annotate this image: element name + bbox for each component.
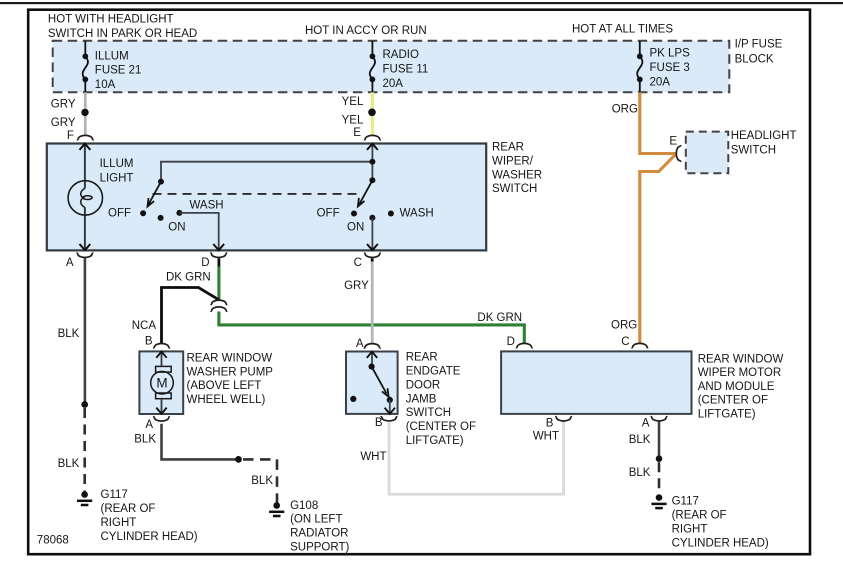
wire BLK dashed to G117 right [658,462,661,494]
svg-text:REAR: REAR [492,142,524,154]
svg-text:SWITCH IN PARK OR HEAD: SWITCH IN PARK OR HEAD [48,28,197,40]
svg-text:ORG: ORG [612,104,638,116]
rear window wiper motor box [501,351,691,414]
pump internal wire bottom [161,399,163,414]
wire BLK dashed to G117 [83,408,86,492]
svg-text:WASH: WASH [190,200,224,212]
svg-text:JAMB: JAMB [406,393,437,405]
headlight switch box [686,132,729,174]
splice dot [656,455,663,462]
svg-text:BLK: BLK [629,434,651,446]
jamb internal feed [371,352,373,367]
right blade arrowhead [358,198,365,207]
svg-text:REAR: REAR [406,351,438,363]
svg-text:CYLINDER HEAD): CYLINDER HEAD) [672,538,769,550]
svg-text:GRY: GRY [51,117,76,129]
svg-text:WIPER MOTOR: WIPER MOTOR [698,367,781,379]
svg-text:M: M [156,376,167,391]
fuse F1 ILLUM FUSE 21 10A [83,41,88,92]
svg-text:C: C [621,336,629,348]
svg-text:HOT WITH HEADLIGHT: HOT WITH HEADLIGHT [48,14,174,26]
left ON contact [158,215,164,221]
connector cap E [364,135,381,139]
right switch pivot dot [369,177,375,183]
svg-text:ON: ON [347,221,364,233]
svg-text:(REAR OF: (REAR OF [672,510,727,522]
svg-text:SWITCH: SWITCH [731,145,776,157]
svg-text:LIGHT: LIGHT [100,172,134,184]
svg-text:WHT: WHT [360,451,386,463]
svg-text:F: F [67,130,74,142]
svg-text:78068: 78068 [37,535,69,547]
svg-text:BLOCK: BLOCK [735,53,774,65]
svg-text:BLK: BLK [134,433,156,445]
svg-text:DK GRN: DK GRN [477,312,522,324]
svg-text:PK LPS: PK LPS [650,48,691,60]
right OFF contact [351,211,357,217]
svg-text:SWITCH: SWITCH [406,407,451,419]
motor M symbol [156,366,172,372]
svg-text:E: E [353,127,361,139]
svg-text:ILLUM: ILLUM [95,50,129,62]
svg-text:YEL: YEL [342,96,364,108]
arrow down at A [80,244,91,250]
arrow up at E [367,144,378,150]
svg-text:RADIO: RADIO [383,49,419,61]
svg-text:HOT AT ALL TIMES: HOT AT ALL TIMES [572,23,673,35]
jamb wire to B [389,400,391,414]
svg-text:(ABOVE LEFT: (ABOVE LEFT [187,380,262,392]
pump internal wire top [161,351,163,366]
arrow up pump [156,352,166,358]
wire BLK motor A down [658,422,661,459]
connector cup C [364,253,381,257]
jamb pivot dot [369,364,375,370]
rear window washer pump box [139,351,183,414]
svg-text:SWITCH: SWITCH [492,183,537,195]
svg-text:WASH: WASH [400,208,434,220]
svg-text:ENDGATE: ENDGATE [406,365,461,377]
svg-text:A: A [642,417,650,429]
svg-text:SUPPORT): SUPPORT) [290,542,349,554]
illum light lamp leg wire [84,144,86,251]
wire BLK dashed to G108 [243,459,277,502]
left WASH contact [176,210,182,216]
svg-text:WIPER/: WIPER/ [492,156,534,168]
svg-text:E: E [669,135,677,147]
connector cap motor C [631,343,648,347]
wire BLK pump A to splice [162,424,239,460]
svg-text:WASHER PUMP: WASHER PUMP [187,366,274,378]
right switch feed wire [371,144,373,181]
arrow down at C [367,244,378,250]
splice dot on YEL wire [368,109,376,117]
left switch blade [149,182,162,205]
connector cup jamb B [381,417,398,421]
jamb lower contact [387,397,393,403]
connector cup motor B [555,417,572,421]
connector cup motor A [651,417,668,421]
connector cup pump A [153,417,170,421]
svg-text:HEADLIGHT: HEADLIGHT [731,130,797,142]
svg-text:HOT IN ACCY OR RUN: HOT IN ACCY OR RUN [305,25,427,37]
svg-text:WHT: WHT [533,431,559,443]
left blade arrowhead [148,198,155,207]
svg-text:DK GRN: DK GRN [166,272,211,284]
svg-text:G117: G117 [101,489,128,501]
arrow up jamb [367,352,377,358]
svg-text:YEL: YEL [342,114,364,126]
fuse F3 PK LPS FUSE 3 20A [637,41,642,92]
svg-text:C: C [354,257,362,269]
svg-text:A: A [66,257,74,269]
svg-text:FUSE 3: FUSE 3 [650,62,690,74]
wire NCA black branch [162,288,219,345]
svg-text:RIGHT: RIGHT [672,524,708,536]
arrow down at D [213,244,224,250]
svg-text:LIFTGATE): LIFTGATE) [698,408,756,420]
svg-text:AND MODULE: AND MODULE [698,381,775,393]
svg-text:REAR WINDOW: REAR WINDOW [698,353,784,365]
svg-text:(ON LEFT: (ON LEFT [290,514,342,526]
connector cup A [77,253,94,257]
svg-text:OFF: OFF [108,208,131,220]
lamp filament [81,188,85,207]
left switch feed wire [161,162,372,182]
svg-text:ILLUM: ILLUM [100,158,134,170]
svg-text:B: B [546,417,554,429]
lamp ILLUM LIGHT [68,181,102,215]
svg-text:G117: G117 [672,496,699,508]
svg-text:BLK: BLK [629,467,651,479]
svg-text:(CENTER OF: (CENTER OF [406,421,476,433]
wire WHT jamb B to motor B [389,421,564,494]
arrow down jamb [385,408,395,414]
svg-text:10A: 10A [95,79,116,91]
svg-text:OFF: OFF [317,208,340,220]
wire ORG from fuse3 [640,92,676,153]
connector cup D [210,253,227,257]
svg-text:ON: ON [168,222,185,234]
svg-text:REAR WINDOW: REAR WINDOW [187,353,273,365]
splice dot on GRY wire [81,109,88,116]
svg-text:WHEEL WELL): WHEEL WELL) [187,394,266,406]
svg-text:ORG: ORG [611,320,637,332]
inline connector on DK GRN wire [211,300,228,304]
svg-text:WASHER: WASHER [492,169,542,181]
right WASH contact [388,211,394,217]
mechanical link dashed [153,193,362,195]
wire DK GRN stub from D [217,258,220,266]
jamb left contact [350,396,356,402]
svg-text:G108: G108 [290,500,318,512]
fuse F2 RADIO FUSE 11 20A [370,41,375,92]
svg-text:DOOR: DOOR [406,379,441,391]
left switch pivot dot [158,179,164,185]
left OFF contact [140,210,146,216]
svg-text:GRY: GRY [344,280,369,292]
svg-text:D: D [201,257,209,269]
arrow up at F [80,144,91,150]
wire GRY from switch C to jamb A [371,258,374,343]
wire GRY fuse21 to switch F [84,92,87,135]
rear wiper/washer switch box [47,144,486,251]
ground G117 left [77,491,92,505]
connector at headlight switch E [676,145,680,162]
wire ON contact to C [371,218,373,250]
svg-text:BLK: BLK [251,475,273,487]
I/P fuse block box [53,41,730,93]
rear endgate door jamb switch box [346,352,398,414]
svg-text:LIFTGATE): LIFTGATE) [406,435,464,447]
connector cap pump B [153,344,170,348]
ground G108 [269,502,284,516]
connector cap motor D [516,343,533,347]
svg-text:B: B [145,336,153,348]
connector cap F [77,135,94,139]
svg-text:RIGHT: RIGHT [101,517,137,529]
svg-text:(REAR OF: (REAR OF [101,503,156,515]
svg-text:BLK: BLK [58,328,80,340]
svg-text:D: D [507,336,515,348]
right ON contact [369,215,375,221]
wire DK GRN to wiper motor D [219,312,524,344]
jamb blade arrowhead [382,388,389,396]
svg-text:CYLINDER HEAD): CYLINDER HEAD) [101,531,198,543]
svg-text:20A: 20A [383,78,404,90]
right switch blade [359,180,372,204]
wire WASH contact to D [179,213,218,250]
splice dot [81,401,88,408]
svg-text:(CENTER OF: (CENTER OF [698,395,768,407]
svg-text:I/P FUSE: I/P FUSE [735,38,783,50]
svg-text:FUSE 21: FUSE 21 [95,65,142,77]
ground G117 right [651,494,666,508]
wire ORG tap to wiper motor C [640,154,676,343]
connector cap jamb A [364,344,381,348]
junction dot right feed [369,159,375,165]
jamb blade [372,367,387,394]
svg-text:A: A [356,338,364,350]
wire YEL fuse11 to switch E [371,92,374,135]
svg-text:20A: 20A [650,77,671,89]
svg-text:GRY: GRY [51,99,76,111]
wire BLK from switch A down [84,258,87,404]
svg-text:NCA: NCA [132,320,157,332]
svg-text:FUSE 11: FUSE 11 [383,63,429,75]
splice dot [235,456,242,463]
svg-text:A: A [145,419,153,431]
arrow down pump [156,408,166,414]
svg-text:RADIATOR: RADIATOR [290,528,348,540]
svg-text:BLK: BLK [58,458,80,470]
top page border line [0,2,843,4]
